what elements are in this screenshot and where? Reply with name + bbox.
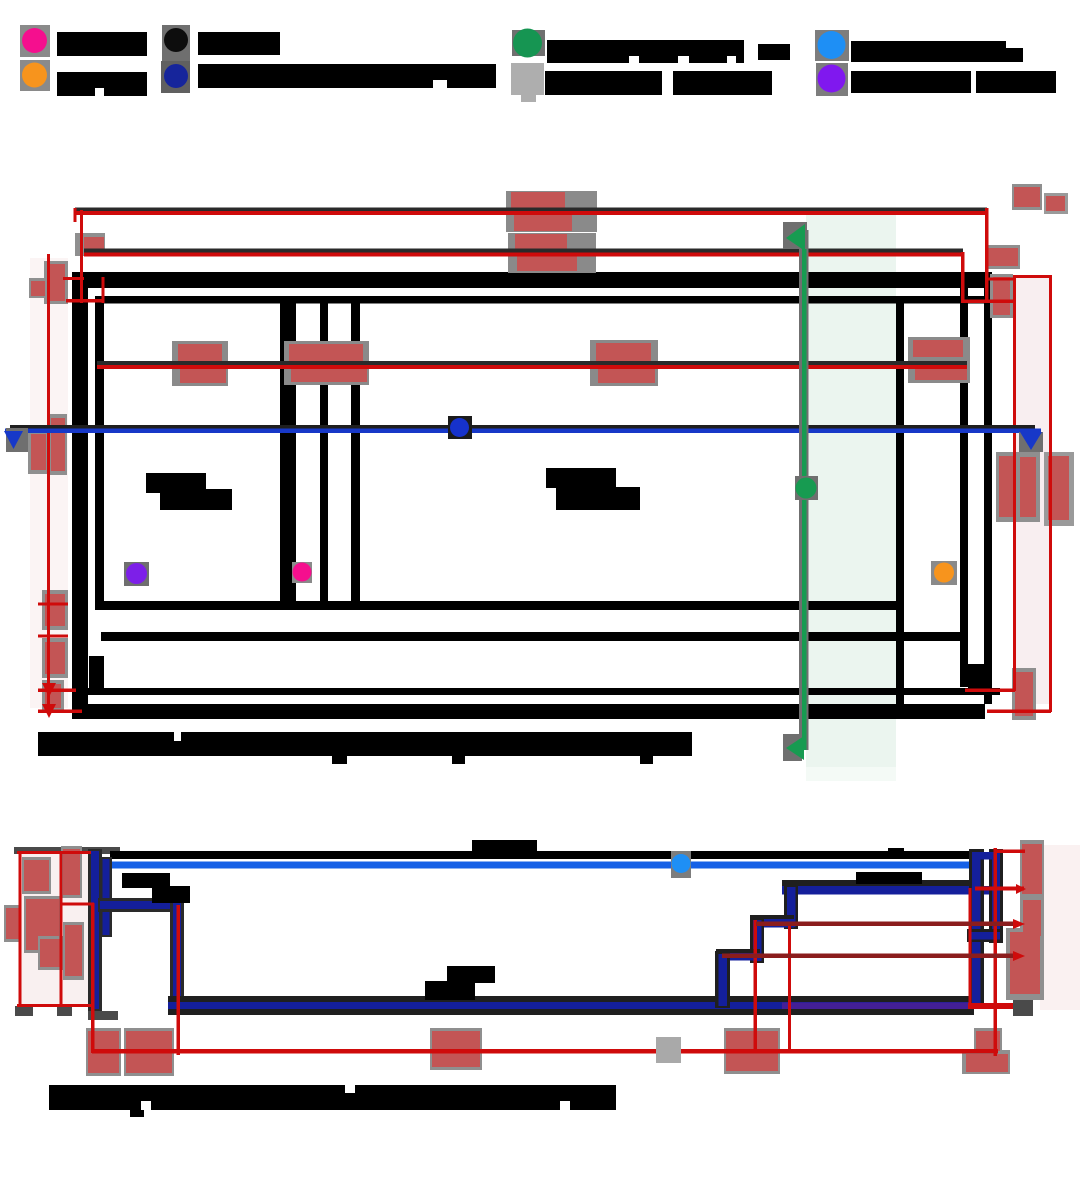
dark red step dim y924 bbox=[756, 922, 1018, 927]
red vertical x177 bbox=[177, 905, 181, 1055]
footing gray left bbox=[15, 1006, 33, 1016]
legend halo orange bbox=[20, 60, 50, 91]
legend gray marker bbox=[511, 63, 544, 95]
pool left wall navy bbox=[173, 903, 181, 1008]
skimmer box inner navy bbox=[103, 859, 110, 935]
red floor dim arrow segment bbox=[968, 1003, 1018, 1009]
dim text right y250 bbox=[986, 245, 1020, 269]
section black label mid bbox=[472, 840, 537, 853]
green bottom arrow halo bbox=[783, 734, 802, 761]
top-left tick b bbox=[66, 299, 104, 303]
legend halo pink bbox=[20, 25, 50, 57]
sec text box e bbox=[63, 922, 84, 980]
left red box right edge bbox=[60, 852, 63, 1007]
left tick y711 bbox=[38, 710, 82, 714]
step riser1 outline bbox=[784, 884, 798, 929]
step tread3 navy bbox=[718, 953, 760, 961]
pink dot bbox=[293, 563, 312, 582]
pool floor outline bottom bbox=[168, 1009, 974, 1015]
dim text top-right b bbox=[1044, 193, 1068, 214]
pink tint plan right dimension corridor bbox=[1016, 276, 1050, 704]
sec text bottom left b bbox=[124, 1028, 174, 1076]
legend text row2 col4 bbox=[851, 71, 971, 93]
pool floor purple overlap bbox=[782, 1003, 970, 1010]
dim line 1 shadow bbox=[75, 208, 987, 212]
step riser2 outline bbox=[750, 917, 764, 963]
dim line 2 bbox=[84, 253, 963, 257]
gray marker on bottom dim bbox=[656, 1037, 681, 1063]
green dot bbox=[796, 478, 817, 499]
faint pink left dimension corridor bbox=[30, 258, 68, 708]
waterline blue dot halo bbox=[671, 851, 691, 878]
top-left short vertical bbox=[102, 277, 105, 303]
right wall bottom connector outline bbox=[967, 929, 1003, 942]
blue square marker bbox=[448, 416, 472, 439]
spa step line 2 bbox=[351, 296, 360, 610]
interior dim line bbox=[97, 365, 967, 369]
legend dot orange bbox=[22, 63, 47, 88]
blue left arrow halo bbox=[6, 428, 28, 452]
dim text left mid vertical b bbox=[49, 414, 67, 475]
dim line 1 right drop bbox=[985, 208, 989, 303]
spa step line 1 bbox=[320, 296, 328, 610]
dim text right mid vertical b bbox=[1044, 452, 1074, 526]
dim text line2 center bbox=[508, 233, 596, 273]
red vertical x995 bbox=[994, 848, 998, 1056]
top-right tick b bbox=[987, 278, 1015, 281]
deck gray band left bbox=[14, 847, 120, 854]
left tick y604 bbox=[38, 603, 68, 606]
dim text right vertical wall bbox=[990, 274, 1013, 318]
red right arrowheads bbox=[1016, 884, 1026, 894]
pool left wall outline bbox=[170, 900, 184, 1010]
step riser1 navy bbox=[787, 887, 796, 927]
right wall bottom connector navy bbox=[970, 932, 1000, 940]
bottom dim line bbox=[92, 1049, 998, 1054]
red vertical x970 bbox=[969, 888, 972, 1009]
deck line 3 bbox=[75, 688, 1000, 695]
sec text bottom left a bbox=[86, 1028, 121, 1076]
dim text bottom-right vertical bbox=[1012, 668, 1036, 720]
dim text right mid vertical a bbox=[996, 452, 1040, 522]
right dim tick y690 bbox=[965, 689, 1015, 693]
legend halo navy bbox=[161, 61, 190, 93]
spa divider wall thick bbox=[280, 296, 296, 610]
red vertical x789 bbox=[788, 922, 791, 1053]
dim line 1 left tick bbox=[74, 208, 77, 222]
legend dot pink bbox=[22, 28, 47, 53]
mint tint swath along section cut line bbox=[806, 215, 896, 767]
green dot halo bbox=[795, 476, 818, 500]
left red box left edge bbox=[19, 852, 22, 1007]
dim text interior right bbox=[908, 337, 970, 383]
left tick y690 bbox=[38, 689, 76, 693]
legend text row1 col4 bbox=[851, 41, 1006, 62]
deck line 2 bbox=[101, 632, 968, 641]
right dim vertical inner bbox=[1013, 275, 1016, 691]
sec text right column gray strip bbox=[1020, 840, 1044, 940]
plan caption bar bbox=[38, 732, 692, 756]
top-right tick a bbox=[963, 300, 1015, 304]
deck black line bbox=[110, 851, 974, 859]
sec text box b bbox=[24, 896, 61, 953]
left red box bottom tick bbox=[17, 1004, 92, 1007]
top-left corner dim vertical bbox=[80, 210, 83, 303]
skimmer throat outline bbox=[98, 898, 184, 912]
gray shadow right of floor arrow bbox=[1013, 1000, 1033, 1016]
right interior wall bbox=[896, 296, 904, 719]
right dim top connector bbox=[1013, 275, 1052, 278]
pool bottom wall bbox=[101, 601, 904, 610]
sec text box c bbox=[38, 936, 63, 970]
right dim vertical outer bbox=[1049, 275, 1052, 712]
dim text interior divider bbox=[284, 341, 369, 385]
sec text bottom steps bbox=[724, 1028, 780, 1074]
section black tick step bbox=[888, 848, 904, 856]
green line bbox=[802, 230, 807, 750]
dim text left mid vertical a bbox=[28, 430, 49, 474]
legend halo purple bbox=[816, 63, 848, 96]
blue line shadow bbox=[10, 425, 1035, 429]
dim text top center bbox=[506, 191, 597, 232]
purple dot halo bbox=[124, 562, 149, 586]
section black label topleft bbox=[122, 873, 170, 888]
sec text bottom mid bbox=[430, 1028, 482, 1070]
legend dot black bbox=[164, 28, 188, 52]
dim text left y690 bbox=[42, 680, 64, 712]
section black label floor bbox=[447, 966, 495, 983]
pool floor outline top bbox=[168, 996, 974, 1003]
blue left arrow bbox=[4, 431, 23, 449]
right wall outer outline bbox=[989, 849, 1003, 943]
right dim tick y711 bbox=[987, 710, 1051, 714]
right wall top navy bbox=[972, 852, 1000, 860]
interior dim line shadow bbox=[97, 361, 967, 365]
step tread3 outline bbox=[716, 949, 760, 954]
green bottom arrow bbox=[786, 736, 804, 760]
dim text left y600 bbox=[42, 590, 68, 630]
legend dot navy bbox=[164, 64, 188, 88]
orange dot halo bbox=[931, 561, 957, 585]
top-left tick a bbox=[63, 277, 84, 280]
sec text bottom right a bbox=[962, 1050, 1010, 1074]
left inner wall bbox=[95, 296, 104, 610]
legend text row1 col2 bbox=[198, 32, 280, 55]
bottom outer wall bbox=[81, 704, 985, 719]
SPA label bbox=[146, 473, 206, 493]
blue right arrow bbox=[1020, 432, 1042, 450]
legend halo black bbox=[162, 25, 190, 61]
legend text row1 col1 bbox=[57, 32, 147, 56]
sec text box d bbox=[61, 846, 82, 898]
purple dot bbox=[126, 563, 147, 584]
dim text top-left 2ft bbox=[75, 233, 105, 256]
step tread1 outline bbox=[782, 880, 978, 887]
pink dot halo bbox=[292, 562, 312, 583]
right wall A bbox=[960, 272, 968, 687]
dim text left y650 bbox=[42, 638, 68, 678]
legend text row2 col1 bbox=[57, 72, 147, 96]
legend text row2 col2 bbox=[198, 64, 496, 88]
sec text box a bbox=[22, 857, 51, 894]
pink tint section left dim box bbox=[21, 853, 90, 1005]
legend dot purple bbox=[818, 65, 846, 93]
small equipment square bottom-right bbox=[968, 664, 984, 688]
red vertical x92 bbox=[91, 903, 95, 1053]
skimmer box outer outline bbox=[88, 849, 102, 1011]
sec text far left bbox=[4, 905, 21, 942]
left tick y636 bbox=[38, 635, 68, 638]
section black label step bbox=[856, 872, 922, 884]
dim text top-left vertical b bbox=[29, 278, 47, 298]
skimmer box outer navy bbox=[91, 851, 99, 1009]
dim line 2 shadow bbox=[84, 249, 963, 253]
pool floor navy bbox=[168, 1002, 974, 1009]
legend text row1 col3 bbox=[547, 40, 744, 63]
green top arrow halo bbox=[783, 222, 807, 249]
right outer wall B bbox=[984, 272, 992, 704]
waterline blue dot bbox=[672, 854, 691, 873]
green line halo bbox=[799, 230, 809, 750]
left deck return bbox=[89, 656, 104, 695]
right wall outer navy bbox=[992, 852, 1000, 940]
step riser3 navy bbox=[719, 954, 728, 1006]
blue waterline dimension bbox=[5, 429, 1041, 434]
legend halo green bbox=[512, 30, 545, 56]
orange dot bbox=[934, 563, 954, 583]
waterline blue bbox=[110, 862, 974, 869]
top outer wall bbox=[72, 272, 992, 288]
green top arrow bbox=[786, 224, 805, 251]
dim line 1 bbox=[75, 211, 987, 215]
dim text interior left bbox=[172, 341, 228, 386]
dim text top-left vertical a bbox=[44, 261, 68, 304]
right wall inner navy bbox=[972, 852, 981, 1007]
pink tint section far right bbox=[1040, 845, 1080, 1010]
right wall inner outline bbox=[969, 849, 984, 1009]
dim text top-right a bbox=[1012, 184, 1042, 210]
left outer wall bbox=[72, 272, 88, 719]
red tick top right bbox=[997, 850, 1025, 854]
dim text interior main bbox=[590, 340, 658, 386]
red vertical x755 bbox=[754, 920, 758, 1053]
left red box top tick bbox=[17, 851, 91, 854]
step riser3 outline bbox=[715, 951, 730, 1008]
left dim vertical bbox=[47, 254, 50, 712]
blue right arrow halo bbox=[1019, 432, 1043, 452]
POOL label bbox=[546, 468, 616, 488]
legend dot green bbox=[513, 29, 542, 58]
skimmer box inner outline bbox=[100, 857, 112, 937]
top inner wall line bbox=[95, 296, 992, 304]
step tread1 navy bbox=[782, 886, 1000, 895]
legend dot blue bbox=[818, 31, 846, 59]
section caption bar bbox=[49, 1085, 616, 1110]
step tread2 outline bbox=[750, 915, 794, 920]
dark red step dim y956 bbox=[722, 954, 1018, 959]
skimmer throat navy bbox=[100, 901, 182, 909]
red tick y903 bbox=[60, 903, 94, 906]
red step dim y888 bbox=[975, 887, 1024, 891]
sec text bottom right b bbox=[974, 1028, 1002, 1054]
dim line 2 right drop bbox=[961, 252, 965, 303]
legend halo blue bbox=[815, 30, 849, 61]
legend text row2 col3 bbox=[545, 71, 662, 95]
step tread2 navy bbox=[752, 919, 794, 928]
step riser2 navy bbox=[753, 920, 762, 961]
